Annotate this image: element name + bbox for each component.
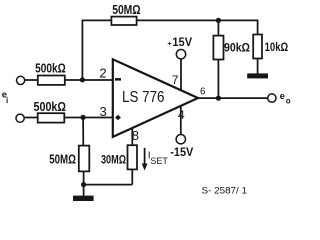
- label drawing number S-2587/1: [202, 186, 248, 196]
- svg-text:2: 2: [99, 66, 106, 81]
- wire stub top node to 90k top: [217, 20, 219, 35]
- terminal input lower circle: [16, 114, 24, 122]
- label Iset current: [148, 150, 169, 166]
- svg-text:-15V: -15V: [170, 145, 193, 159]
- terminal +15V circle: [176, 50, 185, 59]
- label pin 2: [99, 66, 106, 81]
- svg-text:i: i: [6, 96, 8, 105]
- label pin 7: [172, 73, 179, 87]
- label eo output: [280, 91, 291, 105]
- wire 30M bottom to bottom junction: [131, 169, 133, 184]
- label 90k value: [224, 43, 250, 55]
- label 500k upper value: [35, 61, 66, 76]
- node junction pin2 / feedback: [80, 77, 85, 82]
- label 30M value: [101, 152, 126, 166]
- wire bottom horizontal 50M to 30M: [84, 184, 133, 186]
- wire 90k bottom down to output: [217, 60, 219, 99]
- svg-text:50MΩ: 50MΩ: [112, 2, 140, 17]
- wire 10k bottom to ground: [257, 59, 259, 74]
- resistor 50M lower vertical: [79, 146, 90, 172]
- svg-text:6: 6: [200, 87, 206, 98]
- svg-text:90kΩ: 90kΩ: [224, 43, 250, 55]
- wire input row pin 3: [24, 117, 112, 119]
- svg-text:4: 4: [178, 108, 185, 122]
- wire top horizontal from R feedback to corner, down to 10k: [137, 20, 258, 34]
- op-amp plus input mark: [115, 115, 121, 121]
- wire pin 8 from op-amp to 30M: [131, 128, 133, 145]
- label 10k value: [265, 42, 289, 54]
- resistor 90k vertical: [213, 36, 223, 60]
- resistor 50M feedback: [111, 17, 136, 25]
- label +15V supply: [167, 35, 192, 49]
- label 500k lower value: [34, 99, 67, 114]
- wire pin3 node down to 50M resistor: [82, 117, 84, 145]
- wire pin 4 to -15V terminal: [180, 106, 182, 134]
- terminal -15V circle: [176, 135, 185, 144]
- node bottom junction: [81, 182, 86, 187]
- svg-text:500kΩ: 500kΩ: [34, 99, 67, 114]
- wire pin 7 to +15V terminal: [180, 60, 182, 91]
- resistor 30M vertical: [128, 145, 138, 169]
- wire 50M bottom to ground: [83, 171, 85, 196]
- resistor 10k vertical: [253, 35, 262, 59]
- arrow Iset current direction: [142, 148, 148, 171]
- svg-text:S- 2587/ 1: S- 2587/ 1: [202, 186, 248, 196]
- label pin 8: [132, 128, 139, 143]
- svg-text:7: 7: [172, 73, 179, 87]
- node top junction (feedback / 90k / 10k): [216, 18, 221, 23]
- terminal output circle: [268, 94, 276, 102]
- svg-text:3: 3: [100, 104, 107, 119]
- label ei input: [2, 90, 8, 105]
- wire output pin 6: [198, 97, 268, 99]
- label LS 776 device name: [122, 89, 165, 106]
- svg-text:LS 776: LS 776: [122, 89, 165, 106]
- wire input row pin 2: [25, 79, 113, 81]
- resistor 500k lower: [38, 113, 65, 122]
- svg-text:30MΩ: 30MΩ: [101, 152, 126, 166]
- svg-text:o: o: [286, 96, 291, 105]
- svg-text:500kΩ: 500kΩ: [35, 61, 66, 76]
- svg-text:+: +: [167, 41, 171, 48]
- ground lower-left: [73, 196, 94, 201]
- label 50M lower value: [49, 153, 76, 167]
- op-amp U1 triangle: [113, 59, 198, 137]
- ground upper-right: [247, 73, 268, 78]
- terminal input upper circle: [17, 76, 25, 84]
- wire feedback left vertical + top horizontal to R feedback: [82, 20, 111, 79]
- label pin 6: [200, 87, 206, 98]
- svg-text:8: 8: [132, 128, 139, 143]
- node output junction with 90k: [216, 96, 221, 101]
- svg-text:10kΩ: 10kΩ: [265, 42, 289, 54]
- svg-text:SET: SET: [150, 156, 168, 166]
- label -15V supply: [170, 145, 193, 159]
- resistor 500k upper: [38, 76, 65, 85]
- node junction pin3 / 50M: [81, 115, 86, 120]
- svg-text:50MΩ: 50MΩ: [49, 153, 76, 167]
- label pin 4: [178, 108, 185, 122]
- svg-text:15V: 15V: [172, 35, 192, 49]
- label 50M feedback value: [112, 2, 140, 17]
- op-amp minus input mark: [115, 78, 121, 81]
- svg-text:e: e: [280, 91, 285, 102]
- label pin 3: [100, 104, 107, 119]
